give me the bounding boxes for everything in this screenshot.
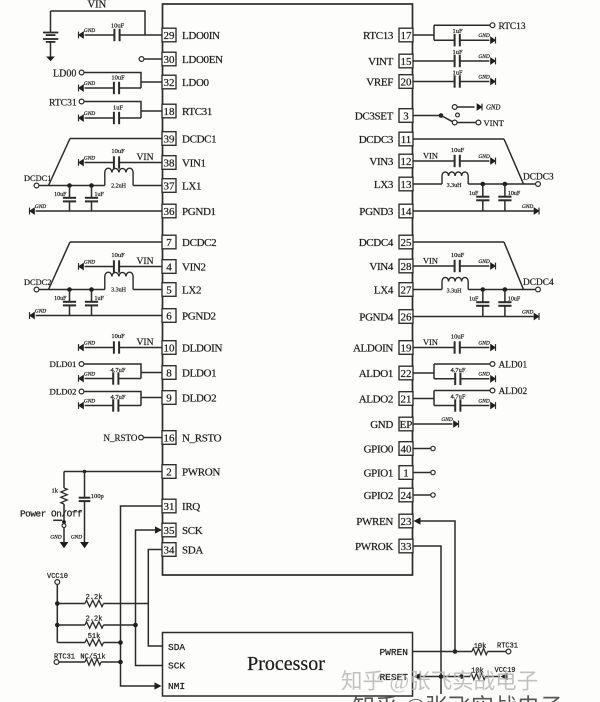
- wire pin stub ALD02: [413, 398, 435, 400]
- inductor L DCDC1 2.2uH: [105, 168, 133, 185]
- resistor R2 2.2k: [85, 600, 104, 606]
- node VCC10 terminal: [55, 580, 60, 585]
- wire pin DCDC1 top: [70, 138, 163, 140]
- gnd GND symbol DC3SET: [477, 103, 501, 112]
- svg-text:13: 13: [401, 179, 413, 191]
- gnd GND symbol C3: [78, 111, 95, 122]
- svg-text:17: 17: [401, 30, 413, 42]
- wire SDA bus: [148, 550, 162, 647]
- pin 31 box: [162, 499, 176, 513]
- junction dot R3 SCK: [133, 623, 138, 628]
- pin 20 box: [399, 75, 413, 89]
- svg-text:10uF: 10uF: [111, 333, 125, 340]
- svg-text:RTC13: RTC13: [363, 30, 394, 42]
- node DCDC4 terminal: [536, 287, 541, 292]
- svg-text:GND: GND: [35, 204, 46, 210]
- wire cap row left y81.5: [413, 81, 455, 83]
- svg-text:GND: GND: [84, 81, 95, 87]
- ground C4: [71, 534, 89, 548]
- capacitor Cout2 DCDC4 10uF: [498, 290, 511, 317]
- svg-text:29: 29: [164, 30, 176, 42]
- pin 5 box: [162, 283, 176, 297]
- wire C4 top: [84, 472, 86, 498]
- svg-text:33: 33: [401, 541, 413, 553]
- wire pin stub DLD02: [141, 397, 163, 399]
- wire ALD01 top: [434, 363, 490, 365]
- svg-text:40: 40: [401, 444, 413, 456]
- wire C4 bottom: [84, 501, 86, 542]
- svg-text:SDA: SDA: [168, 642, 185, 653]
- wire processor PWREN: [413, 651, 456, 653]
- svg-text:RTC13: RTC13: [499, 22, 526, 32]
- pin 22 box: [399, 366, 413, 380]
- svg-text:4.7uF: 4.7uF: [111, 367, 126, 374]
- svg-text:10uF: 10uF: [111, 252, 125, 259]
- svg-text:6: 6: [166, 311, 172, 323]
- svg-text:GND: GND: [50, 534, 61, 540]
- wire pin top DCDC3: [413, 138, 505, 140]
- wire R3 left: [57, 624, 85, 626]
- capacitor Cout2 DCDC1 1uF: [85, 186, 98, 212]
- arrow NMI into processor: [155, 682, 162, 689]
- svg-text:GND: GND: [370, 419, 393, 431]
- arrow VCC19: [501, 673, 508, 680]
- svg-text:7: 7: [166, 237, 172, 249]
- svg-text:DLD01: DLD01: [50, 359, 77, 369]
- svg-text:DCDC4: DCDC4: [523, 278, 554, 288]
- svg-text:35: 35: [164, 525, 176, 537]
- svg-text:1uF: 1uF: [95, 192, 105, 198]
- wire R1 top: [63, 472, 65, 489]
- capacitor Cout1 DCDC2 10uF: [63, 290, 76, 316]
- junction dot R4 NMI: [118, 640, 123, 645]
- svg-text:LX1: LX1: [182, 181, 201, 193]
- svg-text:3.3uH: 3.3uH: [447, 183, 463, 189]
- wire VIN row right DCDC1: [119, 162, 162, 164]
- pin 7 box: [162, 235, 176, 249]
- svg-text:32: 32: [164, 77, 175, 89]
- processor U2 body: [163, 633, 413, 697]
- wire diagonal DCDC4: [504, 242, 524, 290]
- svg-text:PGND3: PGND3: [359, 206, 394, 218]
- junction dot switch: [62, 520, 66, 524]
- svg-text:10k: 10k: [474, 643, 487, 651]
- wire LX DCDC3: [468, 183, 535, 185]
- svg-text:IRQ: IRQ: [182, 501, 200, 513]
- svg-text:3.3uH: 3.3uH: [447, 289, 463, 295]
- pin 8 box: [162, 366, 176, 380]
- svg-text:PGND4: PGND4: [359, 312, 394, 324]
- switch S1 contact: [62, 524, 66, 528]
- svg-text:21: 21: [401, 394, 412, 406]
- svg-text:GPIO2: GPIO2: [364, 490, 393, 502]
- inductor L DCDC4 3.3uH: [442, 277, 468, 289]
- wire SCK bus: [136, 530, 163, 666]
- pin 3 box: [399, 109, 413, 123]
- node RTC13 terminal: [490, 23, 495, 28]
- pin 10 box: [162, 341, 176, 355]
- gnd GND symbol ALD01: [478, 372, 496, 383]
- svg-text:4.7uF: 4.7uF: [451, 367, 466, 374]
- node DCDC3 terminal: [536, 182, 541, 187]
- wire PGND DCDC2: [36, 315, 163, 317]
- wire VIN row left DCDC1: [85, 162, 114, 164]
- svg-text:12: 12: [401, 156, 412, 168]
- svg-text:RTC31: RTC31: [182, 106, 212, 118]
- junction dot RESET pullup: [459, 674, 464, 679]
- svg-text:LX3: LX3: [374, 179, 394, 191]
- wire R5 left: [59, 661, 85, 663]
- wire cap row right y81.5: [460, 81, 490, 83]
- wire pin18 stub: [141, 110, 163, 112]
- svg-text:PGND1: PGND1: [182, 206, 216, 218]
- wire C5 left: [434, 39, 455, 41]
- switch S1 actuator bar: [53, 519, 62, 521]
- svg-text:5: 5: [166, 285, 172, 297]
- gnd GND symbol y61: [478, 54, 496, 65]
- gnd GND symbol VIN row DCDC2: [78, 259, 95, 270]
- wire ALDOIN left: [413, 347, 455, 349]
- wire R4 left: [57, 642, 85, 644]
- wire DCDC2 LX: [39, 289, 105, 291]
- wire RTC31: [84, 102, 141, 119]
- svg-text:RTC31: RTC31: [497, 643, 518, 651]
- node ALD02 terminal: [490, 388, 495, 393]
- pin 35 box: [162, 523, 176, 537]
- resistor R7 10k: [470, 673, 486, 679]
- wire cap row right y61: [460, 60, 490, 62]
- svg-text:20: 20: [401, 77, 413, 89]
- svg-text:GND: GND: [71, 534, 82, 540]
- wire pin top DCDC4: [413, 241, 505, 243]
- wire EP stub: [413, 423, 453, 425]
- wire VIN rail: [51, 11, 146, 35]
- junction dot R2: [55, 601, 60, 606]
- junction dot 1 DCDC2: [67, 287, 72, 292]
- svg-text:GND: GND: [478, 259, 489, 265]
- wire ALD02 cap left: [434, 405, 455, 407]
- svg-text:GND: GND: [478, 372, 489, 378]
- pin 24 box: [399, 488, 413, 502]
- wire DLDOIN right: [119, 347, 162, 349]
- wire ALD02 top: [434, 390, 490, 392]
- pin 32 box: [162, 75, 176, 89]
- svg-text:DCDC1: DCDC1: [182, 134, 216, 146]
- pin 15 box: [399, 54, 413, 68]
- svg-text:NC/51k: NC/51k: [80, 654, 105, 662]
- pin 38 box: [162, 156, 176, 170]
- svg-text:4.7uF: 4.7uF: [451, 394, 466, 401]
- svg-text:SDA: SDA: [182, 545, 203, 557]
- switch S2 contact lower: [452, 120, 457, 125]
- op-amp U1 PMIC body: [163, 4, 413, 575]
- wire R3 right: [104, 624, 136, 626]
- inductor L DCDC2 3.3uH: [105, 272, 133, 289]
- capacitor C4 100p: [79, 498, 91, 501]
- wire PGND DCDC4: [413, 316, 534, 318]
- svg-text:10uF: 10uF: [451, 147, 465, 154]
- wire LX to pin DCDC2: [133, 289, 162, 291]
- pin 9 box: [162, 391, 176, 405]
- capacitor Cout2 DCDC2 1uF: [85, 290, 98, 316]
- svg-text:19: 19: [401, 343, 413, 355]
- svg-text:LDO0IN: LDO0IN: [182, 30, 220, 42]
- pin 23 box: [399, 514, 413, 528]
- wire pin32 stub: [141, 81, 163, 83]
- pin EP box: [399, 417, 413, 431]
- wire pin17 stub: [413, 25, 435, 40]
- capacitor Cout1 DCDC3 1uF: [476, 184, 489, 211]
- svg-text:GND: GND: [84, 155, 95, 161]
- capacitor C DLDOIN 10uF: [114, 341, 119, 353]
- pin 16 box: [162, 431, 176, 445]
- capacitor Cout2 DCDC3 10uF: [498, 184, 511, 211]
- wire to GND contact: [457, 106, 474, 108]
- capacitor VIN DCDC4 10uF: [455, 260, 460, 272]
- junction dot LX2 DCDC3: [503, 182, 508, 187]
- node ALD01 terminal: [490, 362, 495, 367]
- wire PGND DCDC3: [413, 210, 534, 212]
- wire C2 left: [85, 87, 114, 89]
- svg-text:ALDOIN: ALDOIN: [353, 343, 393, 355]
- svg-text:11: 11: [401, 134, 412, 146]
- node VINT terminal: [476, 120, 481, 125]
- wire DLDOIN left: [85, 347, 114, 349]
- pin 17 box: [399, 28, 413, 42]
- wire LX to pin DCDC1: [133, 185, 162, 187]
- junction dot LX2 DCDC4: [503, 287, 508, 292]
- svg-text:LX2: LX2: [182, 285, 201, 297]
- capacitor VIN DCDC2 10uF: [114, 260, 119, 272]
- pin 2 box: [162, 465, 176, 479]
- svg-text:GND: GND: [478, 154, 489, 160]
- switch S2 lever: [441, 116, 453, 122]
- svg-text:2.2uH: 2.2uH: [111, 184, 127, 190]
- svg-text:27: 27: [401, 285, 413, 297]
- svg-text:DCDC3: DCDC3: [523, 173, 554, 183]
- pin 4 box: [162, 260, 176, 274]
- wire DLD01 cap right: [118, 378, 141, 380]
- resistor R1 1k: [61, 488, 67, 504]
- svg-text:PWRON: PWRON: [182, 467, 220, 479]
- wire VIN right DCDC4: [460, 265, 490, 267]
- switch S2 contact middle: [456, 113, 460, 117]
- junction dot LX1 DCDC3: [481, 182, 486, 187]
- svg-text:DCDC3: DCDC3: [359, 134, 394, 146]
- svg-text:1uF: 1uF: [469, 191, 479, 197]
- svg-text:26: 26: [401, 312, 413, 324]
- svg-text:9: 9: [166, 393, 172, 405]
- wire DLD02 cap right: [118, 405, 141, 407]
- svg-text:4.7uF: 4.7uF: [111, 394, 126, 401]
- svg-text:51k: 51k: [88, 633, 101, 641]
- svg-text:37: 37: [164, 181, 176, 193]
- wire C5 right: [460, 39, 490, 41]
- svg-text:PGND2: PGND2: [182, 311, 216, 323]
- wire N_RSTO: [143, 437, 162, 439]
- wire ALD02 cap right: [460, 405, 489, 407]
- svg-text:1uF: 1uF: [469, 297, 479, 303]
- svg-text:ALD02: ALD02: [499, 387, 528, 397]
- wire R6 left: [455, 651, 472, 653]
- svg-text:ALD01: ALD01: [499, 361, 528, 371]
- svg-text:1k: 1k: [52, 488, 59, 495]
- svg-text:24: 24: [401, 490, 413, 502]
- svg-text:知乎 @张飞实战电子: 知乎 @张飞实战电子: [341, 670, 538, 694]
- wire R2 right: [104, 603, 149, 605]
- node N_RSTO terminal: [139, 435, 144, 440]
- capacitor C5 1uF: [455, 34, 460, 46]
- svg-text:GND: GND: [486, 105, 500, 112]
- svg-text:18: 18: [164, 106, 176, 118]
- wire VCC10 rail: [56, 584, 58, 642]
- svg-text:GND: GND: [84, 371, 95, 377]
- svg-text:3: 3: [403, 111, 409, 123]
- wire R2 left: [57, 603, 85, 605]
- wire DLD02 cap left: [85, 405, 114, 407]
- wire IRQ bus: [121, 506, 163, 686]
- svg-text:Processor: Processor: [247, 653, 325, 675]
- pin 13 box: [399, 177, 413, 191]
- wire GPIO0 stub: [413, 448, 431, 450]
- wire VIN left DCDC4: [413, 265, 455, 267]
- svg-text:2.2k: 2.2k: [86, 616, 103, 624]
- pin 33 box: [399, 539, 413, 553]
- svg-text:DCDC1: DCDC1: [24, 174, 51, 183]
- pin 39 box: [162, 132, 176, 146]
- svg-text:Power On/Off: Power On/Off: [20, 509, 83, 520]
- svg-text:N_RSTO: N_RSTO: [104, 433, 138, 443]
- wire DCDC1 diagonal: [49, 139, 71, 186]
- arrow RESET into processor: [414, 673, 421, 680]
- svg-text:RTC31: RTC31: [49, 98, 77, 109]
- svg-text:VIN: VIN: [423, 152, 438, 161]
- junction dot 2 DCDC2: [89, 287, 94, 292]
- svg-text:SCK: SCK: [182, 525, 203, 537]
- svg-text:34: 34: [164, 545, 176, 557]
- svg-text:1uF: 1uF: [113, 105, 124, 112]
- svg-text:23: 23: [401, 516, 413, 528]
- wire pin DCDC2 top: [70, 241, 163, 243]
- pin 1 box: [399, 466, 413, 480]
- svg-text:ALDO1: ALDO1: [359, 368, 393, 380]
- svg-text:GND: GND: [35, 308, 46, 314]
- svg-text:EP: EP: [400, 419, 413, 431]
- svg-text:GND: GND: [84, 111, 95, 117]
- svg-text:LDO0: LDO0: [182, 77, 210, 89]
- wire VIN row right DCDC2: [119, 266, 162, 268]
- node GPIO0 terminal: [431, 446, 435, 450]
- svg-text:VIN: VIN: [423, 338, 438, 347]
- svg-text:LDO0EN: LDO0EN: [182, 54, 223, 66]
- svg-text:GND: GND: [478, 54, 489, 60]
- gnd GND symbol C DLDOIN: [78, 340, 95, 351]
- junction dot LX1 DCDC4: [481, 287, 486, 292]
- svg-text:VIN: VIN: [137, 337, 154, 348]
- svg-text:1uF: 1uF: [452, 69, 463, 76]
- svg-text:10uF: 10uF: [451, 252, 465, 259]
- svg-text:VREF: VREF: [366, 77, 393, 89]
- junction dot R5 NMI: [118, 660, 123, 665]
- svg-text:VINT: VINT: [484, 118, 505, 128]
- wire DCDC1 LX: [39, 185, 105, 187]
- svg-text:GND: GND: [478, 74, 489, 80]
- node GPIO1 terminal: [431, 470, 435, 474]
- svg-text:14: 14: [401, 206, 413, 218]
- ground switch: [50, 534, 68, 548]
- gnd GND symbol PGND DCDC2: [29, 308, 46, 319]
- svg-text:GPIO1: GPIO1: [364, 468, 393, 480]
- svg-text:DCDC4: DCDC4: [359, 237, 394, 249]
- node DLD01 terminal: [79, 362, 84, 367]
- wire pin2 PWRON: [64, 471, 163, 473]
- svg-text:VIN: VIN: [137, 256, 154, 267]
- wire VIN left DCDC3: [413, 160, 455, 162]
- junction dot 1 DCDC1: [67, 183, 72, 188]
- svg-text:GND: GND: [522, 204, 533, 210]
- svg-text:1: 1: [403, 468, 409, 480]
- svg-text:GPIO0: GPIO0: [364, 444, 394, 456]
- svg-text:10uF: 10uF: [508, 191, 521, 197]
- svg-text:GND: GND: [522, 309, 533, 315]
- capacitor DLD01 4.7uF: [113, 372, 118, 384]
- capacitor VIN DCDC1 10uF: [114, 156, 119, 168]
- svg-text:DLDO2: DLDO2: [182, 393, 216, 405]
- svg-text:N_RSTO: N_RSTO: [182, 433, 222, 445]
- svg-text:DLD02: DLD02: [50, 387, 77, 397]
- wire pin stub ALD01: [413, 372, 435, 374]
- node LD00 terminal: [79, 70, 84, 75]
- gnd GND symbol C2: [78, 81, 95, 92]
- svg-text:GND: GND: [478, 398, 489, 404]
- svg-text:10uF: 10uF: [111, 148, 125, 155]
- gnd GND symbol PGND DCDC3: [522, 204, 540, 215]
- pin 40 box: [399, 442, 413, 456]
- pin 29 box: [162, 28, 176, 42]
- svg-text:VIN2: VIN2: [182, 262, 206, 274]
- gnd GND symbol EP: [441, 417, 459, 428]
- gnd GND symbol C1: [78, 28, 95, 39]
- wire PGND DCDC1: [36, 210, 163, 212]
- svg-text:NMI: NMI: [168, 681, 185, 692]
- resistor R5 NC/51k: [85, 659, 101, 665]
- wire PWREN net: [420, 521, 455, 652]
- svg-text:15: 15: [401, 56, 413, 68]
- gnd GND symbol PGND DCDC1: [29, 204, 46, 215]
- svg-text:GND: GND: [478, 340, 489, 346]
- junction dot R3: [55, 623, 60, 628]
- node DCDC1 terminal: [34, 183, 39, 188]
- svg-text:SCK: SCK: [168, 661, 185, 672]
- svg-text:DLDO1: DLDO1: [182, 368, 216, 380]
- node RTC31 terminal right: [506, 649, 511, 654]
- svg-text:VIN4: VIN4: [369, 261, 394, 273]
- node DLD02 terminal: [79, 389, 84, 394]
- capacitor C3 1uF: [114, 112, 119, 124]
- svg-text:10uF: 10uF: [54, 296, 67, 302]
- svg-text:DC3SET: DC3SET: [355, 111, 394, 123]
- wire LX DCDC4: [468, 289, 535, 291]
- wire to VINT contact: [457, 122, 476, 124]
- capacitor C1 10uF: [114, 29, 119, 41]
- pin 30 box: [162, 52, 176, 66]
- wire GPIO1 stub: [413, 472, 431, 474]
- svg-text:36: 36: [164, 206, 176, 218]
- svg-text:1uF: 1uF: [452, 49, 463, 56]
- capacitor ALD01 4.7uF: [455, 373, 460, 385]
- capacitor VIN DCDC3 10uF: [455, 155, 460, 167]
- wire C1 left: [85, 34, 115, 36]
